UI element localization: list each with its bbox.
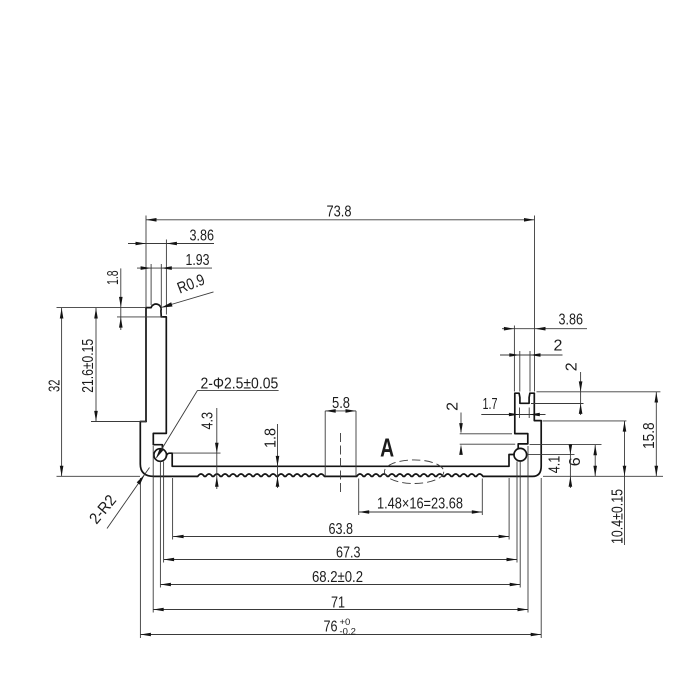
plate bottom serrated band right (16 teeth): [356, 474, 484, 476]
svg-text:32: 32: [46, 379, 63, 392]
svg-text:63.8: 63.8: [329, 521, 354, 538]
plate bottom right end with R2 corner: [484, 393, 542, 476]
ext line left-2 y=444.2: [460, 443, 516, 445]
ext line bottom right y=476.3: [543, 475, 663, 477]
ext line wall top y=307.6 to left: [57, 307, 147, 309]
ext line notch bottom y=444.6 right: [530, 444, 602, 446]
ext vertical x=534.5 right (73.8): [534, 216, 536, 392]
dim 2 right top: [500, 354, 563, 356]
plate bottom serrated band left (16 teeth): [197, 474, 325, 476]
ext line left-2 y=433.8: [460, 433, 512, 435]
svg-text:2: 2: [554, 337, 563, 354]
svg-text:A: A: [380, 434, 394, 462]
dim 2 left of wall notch height: [460, 413, 462, 433]
label 2-phi2.5±0.05 with leader: [157, 390, 279, 457]
dim 6: [594, 445, 596, 477]
svg-text:67.3: 67.3: [336, 545, 361, 562]
dim 4.1: [569, 444, 571, 488]
svg-text:15.8: 15.8: [641, 422, 658, 449]
ext line prong top y=391.8 to right: [537, 391, 661, 393]
ext vertical x=166.4 (3.86): [165, 240, 167, 315]
ext verticals 23.68: [358, 479, 360, 516]
svg-text:71: 71: [331, 595, 345, 612]
dim 2 right vertical slot depth: [580, 372, 582, 415]
screw hole left (2-phi2.5): [154, 449, 167, 462]
dim 3.86 left: [128, 243, 214, 245]
label 2-R2 with leader: [107, 468, 150, 529]
svg-text:-0.2: -0.2: [340, 627, 356, 638]
screw hole right: [514, 448, 527, 461]
ext verticals 1.93: [150, 264, 152, 305]
dim 1.48x16=23.68: [359, 511, 483, 513]
dim 10.4±0.15: [624, 421, 626, 545]
svg-text:76: 76: [324, 619, 338, 636]
dim 5.8 tab: [325, 410, 356, 412]
ext verticals bottom dims right: [508, 478, 510, 540]
svg-text:1.93: 1.93: [186, 252, 210, 269]
ext line 21.6 step y=421.5: [91, 421, 146, 423]
dim 4.3: [216, 408, 218, 489]
dim 1.7 slot inner: [481, 414, 545, 416]
svg-text:1.8: 1.8: [262, 428, 279, 448]
ext ticks slot inner edges for 1.7: [519, 408, 521, 419]
ext line right step y=420.9: [543, 420, 627, 422]
centerline of tab (dash): [340, 433, 342, 494]
ext verticals 5.8 tab: [324, 411, 326, 477]
ext verticals above right prongs: [513, 326, 515, 392]
svg-text:21.6±0.15: 21.6±0.15: [80, 339, 97, 393]
ext line cap shoulder y=316.9: [117, 316, 163, 318]
svg-text:2-Φ2.5±0.05: 2-Φ2.5±0.05: [201, 376, 279, 393]
dim 32: [61, 308, 63, 477]
svg-text:73.8: 73.8: [327, 204, 352, 221]
left ledge and step down to plate top: [166, 453, 514, 466]
dim 73.8 top: [146, 219, 535, 221]
dim 1.93: [137, 267, 212, 269]
svg-text:2: 2: [444, 402, 461, 411]
dim 67.3: [164, 559, 517, 561]
svg-text:2: 2: [563, 362, 580, 371]
svg-text:4.1: 4.1: [547, 456, 564, 474]
svg-text:1.7: 1.7: [483, 396, 498, 413]
ext line bottom-left y=476.3: [57, 475, 141, 477]
detail ellipse dashed: [384, 460, 443, 484]
svg-text:4.3: 4.3: [199, 412, 216, 430]
dim 21.6±0.15: [95, 308, 97, 422]
svg-text:1.8: 1.8: [105, 270, 122, 285]
ext line slot bottom y=403.5: [531, 403, 584, 405]
svg-text:68.2±0.2: 68.2±0.2: [312, 569, 363, 586]
svg-text:10.4±0.15: 10.4±0.15: [610, 489, 627, 544]
profile left wall cap with R0.9 bump: [146, 304, 166, 449]
ext line right ledge y=454.6: [528, 454, 575, 456]
svg-text:3.86: 3.86: [559, 312, 584, 329]
svg-text:3.86: 3.86: [190, 228, 215, 245]
ext vertical x=146 above wall: [145, 216, 147, 308]
right wall slot prongs with chamfered opening: [515, 393, 535, 449]
ext line left ledge y=453.1 (4.3): [173, 452, 221, 454]
dim 63.8: [173, 536, 509, 538]
svg-text:6: 6: [567, 457, 584, 466]
dim 1.8 left vertical: [120, 268, 122, 330]
dim 76 +0/-0.2: [140, 634, 541, 636]
label R0.9 with leader: [161, 292, 214, 308]
dim 71: [153, 609, 528, 611]
dim 1.8 mid: [277, 424, 279, 488]
svg-text:1.48×16=23.68: 1.48×16=23.68: [377, 496, 463, 513]
dim 3.86 right: [502, 328, 587, 330]
dim 68.2±0.2: [160, 584, 520, 586]
left wall outer step and lower outer edge with R2 corner: [140, 422, 197, 477]
svg-text:5.8: 5.8: [332, 395, 350, 412]
dim 15.8: [655, 392, 657, 477]
plate bottom flat window under tab: [325, 475, 356, 477]
ext verticals bottom dims left: [139, 478, 141, 638]
